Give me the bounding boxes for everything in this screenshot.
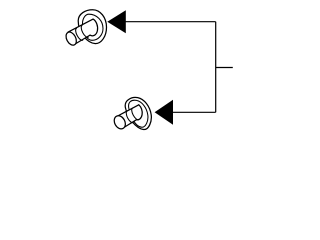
arrow A2 (bottom callout arrow): [155, 100, 173, 125]
wire: right vertical: [215, 22, 217, 113]
arrow A1 (top callout arrow): [107, 10, 126, 33]
wire: bottom leader horizontal: [172, 111, 216, 113]
B2 shank edges: [117, 105, 139, 128]
B1 threads: [74, 25, 88, 41]
bolt B2 (bottom flange bolt): [112, 97, 151, 130]
B1 flange front face: [83, 14, 104, 40]
B1 flange outer rim: [78, 10, 106, 44]
wire: right tick: [216, 67, 233, 69]
B1 shank body fill: [68, 19, 98, 44]
B2 shank base arc: [137, 105, 143, 120]
B2 tip: [112, 114, 127, 131]
B1 shank base arc: [90, 19, 98, 36]
B1 tip: [64, 30, 78, 47]
B2 flange outer rim: [125, 97, 151, 129]
wire: top leader horizontal: [125, 21, 216, 23]
B1 shank edges: [68, 19, 93, 44]
B2 threads: [125, 108, 139, 124]
B2 flange front face: [129, 100, 148, 127]
B2 shank body fill: [117, 105, 143, 128]
bolt B1 (top flange bolt): [64, 10, 107, 47]
